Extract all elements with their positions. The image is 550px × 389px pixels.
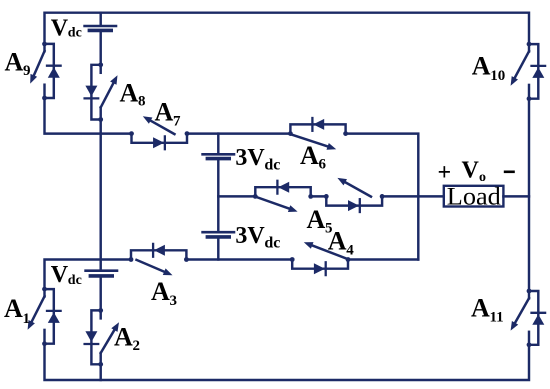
svg-text:4: 4 <box>346 243 354 259</box>
svg-text:3V: 3V <box>235 145 265 171</box>
switch A6 (IGBT with series diode) <box>288 118 348 150</box>
switch A4 (IGBT with series diode) <box>290 242 351 275</box>
wire battery branch: Vdc to A8 top node <box>99 32 101 65</box>
label A2 <box>114 323 140 355</box>
switch A5 left half (IGBT with series diode) <box>253 181 313 212</box>
label − (output polarity negative) <box>504 171 515 174</box>
wire middle column lower (B2 to bottom row tee) <box>217 238 219 259</box>
svg-text:dc: dc <box>68 26 82 41</box>
svg-text:dc: dc <box>264 157 280 174</box>
svg-text:A: A <box>472 52 491 81</box>
label A7 <box>155 98 182 130</box>
wire battery branch: bottom Vdc to A2 top node <box>99 277 101 310</box>
switch A7 (IGBT with series diode) <box>129 116 189 149</box>
wire bottom rail (left corner to right corner) <box>45 344 530 380</box>
svg-text:dc: dc <box>68 273 82 288</box>
svg-text:A: A <box>300 141 319 170</box>
wire battery branch: A8 bottom node down to bottom Vdc (crosses two rows, no junction) <box>99 120 101 270</box>
load resistor (Load box) <box>444 181 504 210</box>
label A6 <box>300 141 327 173</box>
label A4 <box>328 227 355 259</box>
switch A9 (IGBT with anti-parallel diode) <box>30 42 60 101</box>
svg-text:7: 7 <box>173 114 181 130</box>
wire A7-row to A6 left terminal (tees middle column) <box>187 132 290 134</box>
svg-text:A: A <box>307 205 326 234</box>
label 3Vdc (upper) <box>235 145 280 174</box>
label A9 <box>5 48 31 80</box>
wire A5-right to Load (crosses right-mid rail, no junction) <box>382 195 444 197</box>
svg-text:9: 9 <box>23 63 31 79</box>
battery 3Vdc (lower) <box>203 232 234 237</box>
svg-text:A: A <box>151 277 170 306</box>
label A8 <box>120 79 146 110</box>
label A11 <box>471 294 504 326</box>
svg-text:A: A <box>114 323 133 352</box>
svg-text:Load: Load <box>447 181 501 210</box>
wire middle column mid (B1 to B2, tees middle row) <box>217 160 219 231</box>
svg-text:1: 1 <box>23 311 31 327</box>
wire battery branch: A2 bottom node to bottom rail (junction) <box>99 364 101 380</box>
svg-text:8: 8 <box>138 94 146 110</box>
switch A5 right half (IGBT with series diode) <box>324 178 385 212</box>
wire Load to right rail <box>503 195 529 197</box>
label A10 <box>472 52 506 85</box>
label Vo (output voltage) <box>462 157 487 185</box>
wire left-bottom rail top + bottom row left (crosses battery line, no junction) <box>45 260 132 290</box>
switch A11 (IGBT with anti-parallel diode) <box>511 289 545 348</box>
wire middle column upper (row to 3Vdc battery B1) <box>217 134 219 153</box>
wire middle row from column to A5 left <box>218 195 255 197</box>
wire battery branch: top wire to Vdc top plate <box>99 13 101 25</box>
battery Vdc (top) <box>85 26 116 30</box>
battery Vdc (bottom) <box>86 271 117 276</box>
wire bottom row A4 right to right-mid rail corner <box>348 258 419 260</box>
battery 3Vdc (upper) <box>203 154 234 158</box>
switch A1 (IGBT with anti-parallel diode) <box>28 287 61 346</box>
switch A2 (IGBT with anti-parallel diode) <box>85 308 119 367</box>
svg-text:o: o <box>479 170 486 185</box>
switch A10 (IGBT with anti-parallel diode) <box>511 42 545 101</box>
label Vdc (bottom) <box>51 262 82 288</box>
svg-text:3: 3 <box>170 293 178 309</box>
svg-text:2: 2 <box>133 338 141 354</box>
switch A3 (IGBT with series diode) <box>129 244 189 275</box>
svg-text:+: + <box>438 160 452 186</box>
svg-text:6: 6 <box>319 156 327 172</box>
label Vdc (top) <box>51 16 82 42</box>
label A3 <box>151 277 177 309</box>
wire right rail middle segment (tees load wire) <box>528 99 530 291</box>
svg-text:A: A <box>155 98 174 127</box>
svg-text:A: A <box>328 227 347 256</box>
svg-text:V: V <box>51 262 69 288</box>
svg-text:A: A <box>5 48 24 77</box>
label + (output polarity positive) <box>438 160 452 186</box>
svg-text:dc: dc <box>264 235 280 252</box>
svg-text:V: V <box>462 157 480 183</box>
wire between A5-left and A5-right combos <box>311 195 327 197</box>
wire top rail (top-left corner to top-right corner) <box>45 13 530 44</box>
svg-text:A: A <box>4 294 23 323</box>
switch A8 (IGBT with anti-parallel diode) <box>85 62 118 122</box>
label A5 <box>307 205 333 237</box>
wire bottom row A3 to A4 (tees middle column) <box>186 258 293 260</box>
svg-text:V: V <box>51 16 69 42</box>
svg-text:A: A <box>120 79 139 108</box>
svg-text:3V: 3V <box>235 223 265 249</box>
svg-text:11: 11 <box>490 310 504 326</box>
svg-text:A: A <box>471 294 490 323</box>
wire left rail upper segment + A7 row left (crosses battery line, no junction) <box>45 98 132 134</box>
label A1 <box>4 294 30 327</box>
label 3Vdc (lower) <box>235 223 280 252</box>
svg-text:10: 10 <box>490 68 505 84</box>
wire A6 right terminal to right-mid rail, down to bottom row corner <box>346 134 419 260</box>
